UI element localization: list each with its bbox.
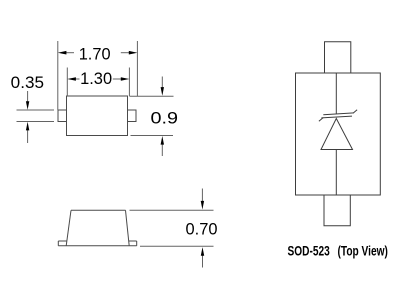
arrowhead up (0.9) [161, 136, 164, 145]
svg-text:1.30: 1.30 [80, 69, 112, 88]
dimension 0.70 [130, 189, 214, 268]
extension line bottom (0.9) [131, 135, 174, 137]
extension line right (1.30) [128, 68, 130, 97]
dimension 1.30 [67, 68, 129, 97]
dimension 0.35 [17, 91, 55, 143]
extension line left (1.70) [57, 41, 59, 110]
package body outline [67, 96, 128, 136]
arrowhead left (1.30) [67, 77, 76, 81]
extension line top (0.35) [17, 109, 55, 111]
dimension 0.9 [129, 77, 173, 157]
dimension 1.70 [58, 41, 138, 110]
extension line bottom (0.35) [17, 121, 55, 123]
extension line bottom (0.70) [140, 245, 214, 247]
body trapezoid right slope [126, 210, 130, 246]
bottom seating line [58, 245, 136, 247]
upper leader line (0.9) [161, 77, 163, 88]
center line upper segment [335, 73, 337, 114]
arrowhead down (0.9) [161, 87, 164, 96]
arrowhead down (0.70) [201, 201, 204, 210]
diode D1 cathode bar top line [323, 113, 354, 115]
left lead left edge [57, 241, 59, 246]
right lead top edge [129, 240, 137, 242]
center line lower segment [335, 150, 337, 196]
lower leader line (0.9) [161, 144, 163, 156]
extension line right (1.70) [136, 41, 138, 97]
arrowhead right (1.30) [121, 77, 130, 81]
extension line top (0.70) [130, 209, 214, 211]
extension line top (0.9) [129, 95, 173, 97]
top terminal tab [325, 42, 351, 73]
extension line left (1.30) [66, 68, 68, 97]
diode D1 cathode bar left tick [319, 118, 323, 122]
lower leader line (0.35) [27, 130, 29, 143]
upper leader line (0.35) [27, 91, 29, 102]
left lead [58, 110, 67, 122]
dim line stub left (1.70) [66, 52, 74, 54]
diode D1 triangle (anode) [321, 119, 353, 150]
arrowhead up (0.70) [201, 247, 204, 256]
svg-text:0.70: 0.70 [186, 220, 218, 239]
diode D1 cathode bar right tick [353, 110, 357, 113]
svg-text:0.35: 0.35 [11, 73, 44, 92]
body trapezoid left slope [66, 210, 71, 246]
body trapezoid top edge [71, 209, 126, 211]
arrowhead up (0.35) [26, 122, 29, 131]
package body outline (top view) [296, 73, 381, 195]
diode D1 cathode bar bottom line [321, 116, 352, 118]
svg-text:(Top View): (Top View) [338, 244, 388, 259]
left lead top edge [58, 240, 67, 242]
upper leader line (0.70) [201, 189, 203, 202]
right lead right edge [136, 241, 138, 246]
right lead [128, 110, 137, 122]
svg-text:SOD-523: SOD-523 [288, 244, 331, 259]
dim line stub right (1.30) [113, 78, 121, 80]
dim line stub left (1.30) [76, 78, 80, 80]
arrowhead left (1.70) [58, 51, 67, 55]
lower leader line (0.70) [202, 255, 204, 268]
bottom terminal tab [324, 195, 350, 226]
arrowhead down (0.35) [26, 101, 29, 110]
arrowhead right (1.70) [129, 51, 138, 55]
dim line stub right (1.70) [121, 52, 129, 54]
svg-text:1.70: 1.70 [79, 44, 111, 63]
svg-text:0.9: 0.9 [151, 109, 179, 128]
